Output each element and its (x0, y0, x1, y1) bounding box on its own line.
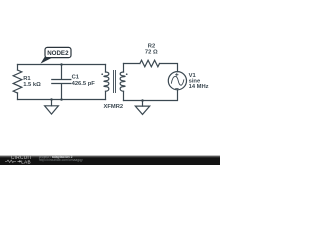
svg-text:1.5 kΩ: 1.5 kΩ (23, 82, 41, 88)
junction dot left ground (50, 98, 53, 101)
ground symbol left stem (51, 100, 53, 106)
wire left rail bottom (R1 to bottom rail) (17, 93, 19, 100)
voltage source V1 sine wave (171, 76, 183, 85)
transformer XFMR2 secondary top lead (123, 64, 125, 73)
transformer XFMR2 core lines (114, 71, 116, 93)
capacitor C1 bottom lead (61, 84, 63, 100)
junction dot right ground (141, 99, 144, 102)
transformer XFMR2 secondary winding (120, 72, 125, 91)
footer CircuitLab logo arrow glyph (18, 160, 21, 162)
voltage source V1 circle (168, 72, 186, 90)
svg-text:LAB: LAB (21, 159, 31, 164)
voltage source V1 minus sign (176, 87, 179, 89)
wire top-right rail (XFMR2 secondary to R2) (124, 63, 140, 65)
junction dot C1 bottom (60, 98, 63, 101)
svg-text:R1: R1 (23, 76, 31, 82)
footer CircuitLab logo resistor glyph (5, 160, 16, 162)
wire R2 to V1 top corner (160, 64, 178, 72)
transformer XFMR2 primary bottom lead (105, 91, 107, 99)
svg-text:C1: C1 (72, 75, 80, 81)
svg-text:426.5 pF: 426.5 pF (72, 81, 96, 87)
voltage source V1 plus sign (176, 74, 178, 76)
resistor R1 zigzag (13, 70, 22, 93)
capacitor C1 plates (52, 80, 71, 84)
svg-text:http://circuitlab.com/cmaagqy: http://circuitlab.com/cmaagqy (39, 158, 83, 162)
ground symbol right stem (142, 101, 144, 107)
transformer XFMR2 primary phase dot (101, 73, 103, 75)
junction dot C1 top (node NODE2) (60, 63, 63, 66)
capacitor C1 top lead (61, 65, 63, 80)
transformer XFMR2 secondary bottom lead (123, 91, 125, 100)
wire V1 bottom to bottom-right rail (124, 90, 178, 101)
svg-text:R2: R2 (148, 44, 155, 50)
svg-text:NODE2: NODE2 (47, 50, 69, 57)
node NODE2 callout pointer (41, 56, 53, 64)
transformer XFMR2 secondary phase dot (126, 73, 128, 75)
svg-text:XFMR2: XFMR2 (104, 104, 124, 110)
node NODE2 callout box (45, 47, 71, 57)
transformer XFMR2 primary winding (104, 72, 109, 91)
wire bottom-left rail (18, 99, 106, 101)
wire top-left rail (R1 top to XFMR2 primary top) (18, 64, 106, 66)
wire left rail top (into R1) (17, 65, 19, 71)
transformer XFMR2 primary top lead (105, 65, 107, 73)
ground symbol right triangle (135, 106, 149, 114)
ground symbol left triangle (45, 106, 59, 114)
svg-text:72 Ω: 72 Ω (145, 50, 158, 56)
resistor R2 zigzag (140, 60, 160, 67)
svg-text:14 MHz: 14 MHz (189, 84, 209, 90)
